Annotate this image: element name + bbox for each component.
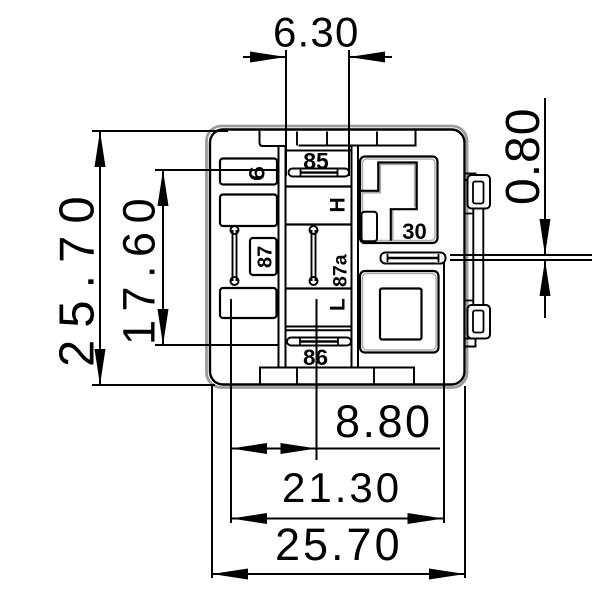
cavity C	[220, 288, 277, 318]
lower right cavity box	[360, 271, 439, 353]
cavity C shadow	[223, 291, 275, 316]
right side rail top step	[465, 213, 473, 215]
svg-text:L: L	[327, 298, 350, 311]
pin H label	[327, 197, 350, 212]
center column divider y=330.3	[286, 329, 352, 331]
svg-text:25.70: 25.70	[275, 519, 403, 570]
dimension 25.70 left extension bottom	[92, 384, 215, 386]
dimension 0.80 extension top	[450, 254, 592, 256]
dimension 25.70 left top arrow	[95, 131, 106, 167]
right side top stub	[465, 174, 476, 181]
bottom recess tick x=297	[296, 368, 298, 384]
column rib line x=285.5	[285, 146, 287, 368]
dimension 0.80 line upper	[544, 98, 546, 255]
pin 86 slot	[287, 338, 351, 346]
pin 30 slot inner tick right	[438, 254, 440, 262]
center column divider y=150.5	[287, 150, 352, 152]
upper right cavity box	[360, 157, 438, 244]
lower right inner pocket shadow	[383, 291, 420, 337]
cavity A (pin 6)	[220, 159, 277, 185]
right side top hook	[468, 175, 491, 209]
dimension 17.60 top arrow	[158, 170, 169, 206]
pin 87a slot bottom bulb	[310, 277, 318, 285]
pin 87 slot right line	[236, 230, 238, 281]
dimension 8.80 line	[231, 448, 440, 450]
dimension 6.30 left arrow	[250, 52, 286, 63]
dimension 25.70 bottom right extension	[464, 386, 466, 578]
extension line left pin column	[230, 299, 232, 523]
svg-text:30: 30	[402, 219, 426, 244]
pin 30 blade line	[388, 257, 438, 260]
svg-text:21.30: 21.30	[282, 464, 402, 511]
dimension 6.30 right extension line	[348, 50, 350, 176]
pin 30 slot	[381, 253, 446, 264]
dimension 6.30 line right segment	[349, 56, 392, 58]
bottom recess tick x=374	[373, 368, 375, 384]
right side bottom hook	[468, 305, 491, 339]
pin 86 slot inner tick right	[337, 338, 339, 345]
center column divider y=288.5	[286, 287, 352, 289]
pin 87a label	[330, 254, 352, 287]
top recess in body edge right part	[299, 130, 416, 146]
pin 87a slot left line	[311, 230, 313, 281]
cavity B shadow	[223, 197, 275, 224]
pin 86 blade line	[300, 340, 338, 342]
dimension 0.80 line lower	[544, 260, 546, 318]
dimension text 0.80	[497, 108, 550, 205]
dimension 17.60 line	[162, 170, 164, 345]
lower right inner pocket	[380, 289, 422, 340]
upper right cavity step contour shadow	[363, 165, 415, 241]
dimension 6.30 right arrow	[349, 52, 385, 63]
dimension 0.80 upper arrow	[540, 219, 551, 255]
top recess tick x=327	[326, 132, 328, 146]
svg-text:17.60: 17.60	[114, 190, 165, 345]
right side top hook inner	[473, 182, 484, 204]
dimension 17.60 extension top	[155, 169, 278, 171]
dimension 25.70 left line	[99, 131, 101, 385]
right side rail	[473, 209, 483, 307]
relay body outline	[210, 130, 465, 385]
dimension 17.60 bottom arrow	[158, 309, 169, 345]
cavity 87 box	[250, 238, 277, 275]
pin 86 slot inner tick left	[299, 338, 301, 345]
pin 30 slot inner tick left	[387, 254, 389, 262]
dimension 8.80 right arrow	[281, 443, 317, 454]
dimension 0.80 extension bottom	[450, 259, 592, 261]
right side rail bottom step	[465, 300, 473, 302]
svg-text:85: 85	[303, 148, 329, 174]
dimension 21.30 line	[231, 518, 444, 520]
dimension 25.70 left extension top	[92, 130, 228, 132]
cavity A shadow	[223, 161, 275, 182]
center column divider y=186.5	[286, 185, 352, 187]
svg-text:87: 87	[255, 246, 277, 268]
upper right small pocket	[362, 212, 378, 242]
pin 85 slot inner tick left	[300, 169, 302, 177]
svg-text:0.80: 0.80	[497, 108, 550, 205]
upper right cavity step contour	[361, 163, 417, 241]
pin 87 slot top bulb	[231, 226, 239, 234]
pin 87 slot bottom bulb	[231, 277, 239, 285]
svg-text:87a: 87a	[330, 254, 352, 287]
pin 87 slot left line	[232, 230, 234, 281]
dimension 25.70 bottom right arrow	[429, 569, 465, 580]
pin 87a slot top bulb	[310, 226, 318, 234]
bottom recess in body edge	[260, 368, 414, 384]
top recess in body edge left part	[260, 130, 286, 146]
center column divider y=224.5	[286, 223, 352, 225]
pin 87 label	[255, 246, 277, 268]
dimension 25.70 left bottom arrow	[95, 349, 106, 385]
top recess tick x=377	[376, 132, 378, 146]
dimension 6.30 line left segment	[243, 56, 286, 58]
dimension text 25.70 left	[51, 184, 105, 367]
svg-text:6.30: 6.30	[273, 9, 360, 56]
dimension 17.60 extension bottom	[155, 344, 278, 346]
dimension 0.80 lower arrow	[540, 260, 551, 296]
dimension 25.70 bottom line	[212, 573, 465, 575]
top recess tick x=297	[296, 132, 298, 146]
right side bottom stub	[465, 339, 476, 347]
column rib line x=278.5	[278, 146, 280, 368]
extension line center pin column	[316, 299, 318, 460]
pin 85 slot	[289, 169, 350, 177]
dimension 25.70 bottom left extension	[211, 386, 213, 578]
center column divider y=327	[286, 326, 352, 328]
pin 85 blade line	[301, 171, 338, 173]
extension line right pin slot	[443, 262, 445, 523]
column rib line x=351.5	[351, 146, 353, 368]
pin L label	[327, 298, 350, 311]
lower right cavity box inner shadow	[363, 274, 437, 351]
dimension 21.30 left arrow	[231, 513, 267, 524]
dimension 21.30 right arrow	[408, 513, 444, 524]
svg-text:8.80: 8.80	[335, 396, 433, 447]
right side bottom hook inner	[473, 311, 484, 333]
relay body outer shadow outline	[207, 126, 468, 388]
dimension text 17.60	[114, 190, 165, 345]
cavity B	[220, 195, 277, 227]
svg-text:25.70: 25.70	[51, 184, 105, 367]
pin 85 slot inner tick right	[337, 169, 339, 177]
dimension 6.30 left extension line	[285, 50, 287, 176]
dimension 8.80 left arrow	[231, 443, 267, 454]
svg-text:H: H	[327, 197, 350, 212]
pin 87a slot right line	[315, 230, 317, 281]
upper right cavity box inner shadow	[363, 159, 436, 241]
column rib line x=358	[357, 146, 359, 368]
dimension 25.70 bottom left arrow	[212, 569, 248, 580]
svg-text:6: 6	[245, 166, 270, 181]
pin 6 label	[245, 166, 270, 181]
